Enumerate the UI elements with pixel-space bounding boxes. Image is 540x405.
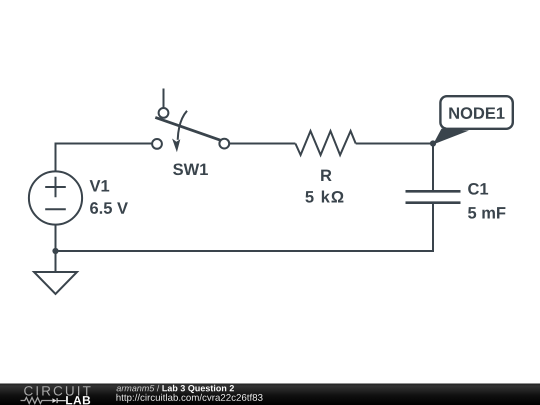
label 5 mF bbox=[468, 207, 505, 219]
label V1 bbox=[90, 180, 110, 191]
ground bbox=[34, 272, 77, 294]
NODE1 flag pointer bbox=[433, 129, 469, 145]
footer url line bbox=[116, 394, 262, 403]
CircuitLab logo text CIRCUIT bbox=[24, 386, 90, 396]
CircuitLab logo symbol (resistor + diode) bbox=[21, 398, 53, 404]
wire: junction to ground bbox=[55, 251, 57, 272]
wire: V1 top to switch left terminal bbox=[56, 144, 152, 173]
switch SW1 top terminal bbox=[159, 108, 169, 118]
switch SW1 left terminal bbox=[152, 139, 162, 149]
wire: V1 bottom to junction bbox=[55, 225, 57, 251]
footer title name bbox=[162, 385, 234, 393]
junction dot bottom left bbox=[52, 248, 58, 254]
resistor R bbox=[295, 131, 355, 155]
wire: switch top throw stub bbox=[163, 89, 165, 108]
capacitor C1 plates bbox=[406, 191, 461, 202]
switch SW1 actuation arrow bbox=[178, 111, 187, 140]
wire: switch right terminal to resistor bbox=[229, 143, 295, 145]
label SW1 bbox=[173, 163, 208, 175]
switch SW1 right terminal bbox=[219, 139, 229, 149]
NODE1 label bbox=[449, 107, 504, 119]
node dot at NODE1 bbox=[430, 140, 436, 146]
wire: node down to capacitor bbox=[432, 144, 434, 191]
voltage source V1 bbox=[29, 171, 82, 224]
wire: capacitor bottom to ground rail bbox=[56, 203, 434, 251]
label 5 kOhm bbox=[305, 191, 343, 203]
label R bbox=[321, 170, 331, 181]
footer title separator bbox=[157, 385, 160, 392]
NODE1 flag box bbox=[440, 96, 512, 129]
wire: resistor to node bbox=[356, 143, 433, 145]
footer title user bbox=[117, 385, 155, 391]
switch SW1 blade bbox=[155, 117, 222, 140]
CircuitLab logo text LAB bbox=[66, 396, 90, 404]
label 6.5 V bbox=[90, 202, 128, 214]
label C1 bbox=[468, 183, 488, 195]
